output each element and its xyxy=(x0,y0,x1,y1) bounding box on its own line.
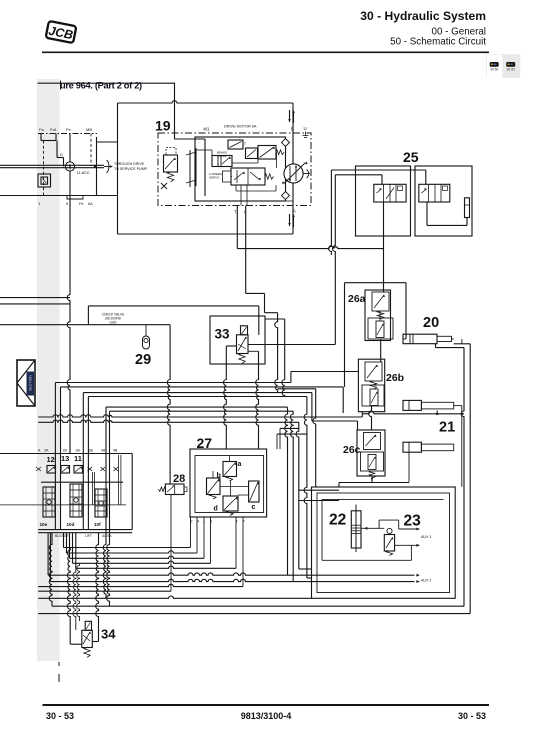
26c relief xyxy=(364,433,381,450)
right brake valve out loop xyxy=(426,202,428,225)
check valve diamond top xyxy=(282,139,290,147)
svg-text:34: 34 xyxy=(101,627,116,642)
svg-text:11.8CC: 11.8CC xyxy=(77,170,90,175)
svg-text:T: T xyxy=(244,142,246,146)
svg-text:21: 21 xyxy=(439,420,455,436)
left bottom rail xyxy=(0,195,118,197)
swash plate symbol xyxy=(189,150,191,187)
26b valve xyxy=(370,389,378,406)
26c rail left drop xyxy=(338,483,340,487)
inner wires of motor block xyxy=(204,139,206,196)
svg-text:Fa1: Fa1 xyxy=(50,127,58,132)
svg-text:Fe: Fe xyxy=(79,202,83,206)
solenoid valve 2-speed xyxy=(246,148,258,159)
valve 33 left wire xyxy=(226,345,236,347)
box 27 enclosure xyxy=(190,449,267,517)
svg-text:b: b xyxy=(217,473,221,480)
box 25 left enclosure xyxy=(356,166,411,236)
main supply loop top xyxy=(118,101,294,103)
svg-text:33: 33 xyxy=(215,327,231,342)
check X right xyxy=(114,467,119,471)
svg-text:SERVO: SERVO xyxy=(209,175,220,179)
motor case drain xyxy=(307,170,309,179)
svg-text:B: B xyxy=(291,127,294,132)
34 mid drop 1 xyxy=(73,568,76,630)
valve 34 body xyxy=(82,630,93,647)
svg-text:30 - Hydraulic System: 30 - Hydraulic System xyxy=(360,9,486,23)
rail B stub xyxy=(329,170,332,255)
svg-text:ure 964. (Part 2 of 2): ure 964. (Part 2 of 2) xyxy=(60,80,142,90)
valve 27a xyxy=(223,462,237,477)
0 port zigzag down xyxy=(264,293,266,312)
bank bottom rails xyxy=(38,529,132,531)
main supply loop bottom xyxy=(118,233,294,235)
valve 27b xyxy=(207,478,221,495)
svg-text:26a: 26a xyxy=(348,293,366,305)
26a inner box xyxy=(368,318,393,339)
svg-text:A: A xyxy=(293,209,296,214)
check valve rail xyxy=(88,305,258,307)
cylinder 21 feed line xyxy=(362,412,464,414)
inner return rect right xyxy=(461,348,464,607)
sidebar tab xyxy=(17,360,35,406)
26a valve xyxy=(376,321,384,338)
svg-text:6A: 6A xyxy=(88,202,93,206)
port B flow arrows xyxy=(289,110,291,122)
valve pilot box xyxy=(223,171,232,182)
cylinder 21 body xyxy=(403,400,421,410)
svg-text:30 - 53: 30 - 53 xyxy=(458,711,486,721)
bus wire A5 xyxy=(106,406,288,408)
svg-text:Fe: Fe xyxy=(66,127,71,132)
relief drain X xyxy=(161,183,167,189)
aux1 arrow 2 xyxy=(395,544,420,546)
figure caption line xyxy=(38,82,176,84)
bank top rail xyxy=(0,453,132,455)
outer return rect bottom xyxy=(38,613,470,615)
valve 28 bottom wire xyxy=(170,495,172,592)
bus wire A6 drop xyxy=(107,411,110,606)
brake valve left xyxy=(374,184,406,202)
cylinder 21 rod xyxy=(421,402,453,409)
33 top right wire xyxy=(265,318,285,320)
spool 10f xyxy=(95,489,107,517)
rail notch xyxy=(67,196,83,200)
27 top feed 2 xyxy=(279,428,281,449)
26c inner box xyxy=(361,452,384,471)
0 port zigzag right xyxy=(246,292,265,294)
svg-text:AUX 1: AUX 1 xyxy=(421,535,431,539)
main supply loop left xyxy=(117,103,119,234)
svg-text:50 - Schematic Circuit: 50 - Schematic Circuit xyxy=(390,37,486,48)
bus wire A2 drop xyxy=(60,387,62,530)
svg-text:22: 22 xyxy=(329,512,346,529)
staircase wire 5 xyxy=(75,533,77,569)
27 top feed 1 xyxy=(276,434,278,449)
valve 27c xyxy=(249,481,259,502)
26b inner box xyxy=(362,385,384,406)
wire supply to left brake valve xyxy=(335,174,382,176)
svg-text:29: 29 xyxy=(135,352,151,368)
check valve box drop xyxy=(87,306,89,325)
bank stub verticals xyxy=(118,455,120,505)
left gauge component xyxy=(38,174,51,187)
svg-text:5: 5 xyxy=(66,202,68,206)
svg-text:20: 20 xyxy=(423,315,439,331)
cylinder 26c rod xyxy=(421,444,453,451)
accumulator 22 body xyxy=(351,511,361,548)
port A flow arrows xyxy=(289,214,291,226)
check valve diamond bottom xyxy=(282,192,290,200)
svg-text:a: a xyxy=(238,461,242,468)
wire a-branch xyxy=(96,137,98,142)
wire 29 rail down to aux valve 28 xyxy=(167,325,170,484)
main directional valve xyxy=(231,168,265,185)
svg-text:LIFT: LIFT xyxy=(85,534,92,538)
svg-text:10f: 10f xyxy=(94,522,101,527)
servo cylinder xyxy=(212,156,232,167)
accumulator 22 rod xyxy=(355,505,357,552)
shuttle box xyxy=(228,140,243,149)
aux2 rail 1 xyxy=(47,533,49,576)
hydraulic motor xyxy=(284,164,303,183)
svg-text:19: 19 xyxy=(155,118,171,134)
23 step wire xyxy=(378,520,380,528)
bank mid rail xyxy=(41,481,123,483)
junction dot xyxy=(94,165,97,168)
26a feed loop xyxy=(345,282,407,284)
svg-text:SECTION: SECTION xyxy=(29,375,33,391)
valve 23 spring xyxy=(386,551,392,556)
34 drop left xyxy=(67,548,70,645)
bank right edge xyxy=(131,454,133,530)
solenoid 13 xyxy=(61,466,70,474)
valve 33 spring xyxy=(239,354,245,364)
svg-text:AUX 2: AUX 2 xyxy=(421,579,431,583)
svg-text:2A: 2A xyxy=(44,449,49,453)
valve 28 xyxy=(165,484,184,495)
cylinder 20 head wire xyxy=(403,338,406,340)
box 2223 outer xyxy=(312,487,456,598)
26b left rail xyxy=(342,387,344,413)
bus wire A5 drop xyxy=(103,407,106,598)
bus wire A2 xyxy=(61,386,344,388)
26a enclosure xyxy=(365,290,391,341)
T port wire down xyxy=(236,206,238,249)
22 to 23 wire xyxy=(361,527,384,529)
26b enclosure xyxy=(358,359,384,412)
valve 33 pilot xyxy=(241,326,248,335)
spool 10e xyxy=(43,487,55,517)
valve 23 body xyxy=(384,535,394,552)
right rail 1 xyxy=(285,407,288,575)
svg-text:2B: 2B xyxy=(63,449,68,453)
check X mid1 xyxy=(88,467,93,471)
box 25 right enclosure xyxy=(415,166,472,236)
box 27 internal wires xyxy=(220,486,249,488)
motor inner housing xyxy=(195,137,286,201)
check X mid2 xyxy=(101,467,106,471)
through-drive double line xyxy=(0,164,104,166)
JCB logo xyxy=(46,21,77,43)
wire Fa bracket xyxy=(40,134,42,141)
brake valve right xyxy=(419,184,450,202)
26b relief xyxy=(365,362,382,381)
33 feed down xyxy=(258,306,260,335)
bus wire A3 drop xyxy=(82,393,84,530)
cylinder 20 rod xyxy=(437,336,452,341)
wire Fe long vertical xyxy=(67,134,70,454)
svg-text:30 - 53: 30 - 53 xyxy=(46,711,74,721)
0 port zigzag down 2 xyxy=(275,313,278,393)
svg-text:Fa: Fa xyxy=(39,127,44,132)
svg-text:U: U xyxy=(304,126,307,131)
26c enclosure xyxy=(357,430,385,476)
staircase wire 3 xyxy=(69,533,71,559)
bus wire A4 xyxy=(88,396,307,398)
27 c outputs xyxy=(299,489,339,491)
svg-text:26b: 26b xyxy=(386,372,404,384)
wire D jog xyxy=(56,141,58,158)
svg-text:30-50: 30-50 xyxy=(490,68,498,72)
inner return rect bottom xyxy=(52,605,464,607)
wire Fa1 dashed drop xyxy=(43,141,45,196)
box25 accumulator xyxy=(465,198,470,218)
wire from figure area down to motor xyxy=(174,83,176,139)
svg-text:10d: 10d xyxy=(67,522,75,527)
cylinder 20 bottom port wire xyxy=(435,344,437,348)
26a out down xyxy=(380,339,382,362)
bus wire A1 xyxy=(55,382,291,384)
svg-text:D: D xyxy=(60,153,63,157)
svg-text:THROUGH DRIVE: THROUGH DRIVE xyxy=(114,162,145,166)
valve 33 body xyxy=(237,335,249,354)
svg-text:AUX 1: AUX 1 xyxy=(102,534,112,538)
svg-text:d: d xyxy=(214,506,218,513)
staircase wire 2 xyxy=(66,533,68,553)
spool 10d xyxy=(70,484,82,517)
cylinder 20 rod-end wire xyxy=(461,339,463,344)
right rail 3 xyxy=(296,422,299,569)
bus wire A4 rail xyxy=(304,397,307,579)
0 port zigzag right 2 xyxy=(265,312,278,314)
P port deep wire xyxy=(38,584,243,586)
box 27 inner xyxy=(195,456,264,513)
svg-text:GAS: GAS xyxy=(110,321,118,325)
drive motor dash-dot enclosure xyxy=(158,133,311,206)
valve 27d xyxy=(223,496,238,511)
aux1 arrow 1 xyxy=(399,528,420,530)
gray strip bottom dashes xyxy=(58,662,60,666)
svg-text:c: c xyxy=(252,504,256,511)
svg-text:M1: M1 xyxy=(204,127,210,132)
svg-text:MB: MB xyxy=(86,127,92,132)
valve 33 out wire xyxy=(248,350,259,352)
tank symbol U xyxy=(305,132,307,136)
zigzag drop mid xyxy=(313,389,316,487)
solenoid 12 xyxy=(47,466,56,474)
wire supply to right brake valve xyxy=(331,169,425,171)
main supply loop right xyxy=(292,103,294,234)
gear pump 11.8CC xyxy=(65,162,74,171)
26b out down xyxy=(369,406,372,431)
bus wire A4 drop xyxy=(87,397,89,530)
svg-text:TO SERVICE PUMP: TO SERVICE PUMP xyxy=(114,167,148,171)
dash-dot rail xyxy=(38,133,97,135)
box2223 bottom extension xyxy=(38,596,311,598)
check valve feed rail xyxy=(0,324,170,326)
34 mid drop 2 xyxy=(77,563,80,621)
svg-text:3B: 3B xyxy=(89,449,94,453)
check X left xyxy=(36,467,41,471)
svg-text:25: 25 xyxy=(403,149,419,165)
26a left rail xyxy=(344,283,346,387)
bus wire B2 long xyxy=(38,420,299,422)
34 drop right xyxy=(96,533,99,642)
bus wire A3 xyxy=(83,392,312,394)
cylinder 21 rod-end wire xyxy=(461,406,463,487)
svg-text:1: 1 xyxy=(39,202,41,206)
valve 23 pilot circle xyxy=(387,528,392,533)
svg-text:10e: 10e xyxy=(40,522,48,527)
box 33 enclosure xyxy=(210,316,265,364)
pilot rail to brake valves xyxy=(237,246,383,248)
footer rule xyxy=(43,704,490,706)
svg-text:30-53: 30-53 xyxy=(507,68,515,72)
23 return loop xyxy=(410,545,412,560)
cylinder 26c body xyxy=(403,442,421,452)
check valve 29 symbol xyxy=(145,325,147,336)
26c out down arrow xyxy=(371,476,373,483)
valve 34 spring xyxy=(84,648,90,658)
svg-text:DRIVE MOTOR 9A: DRIVE MOTOR 9A xyxy=(224,125,257,129)
svg-text:13: 13 xyxy=(61,454,69,463)
svg-text:4B: 4B xyxy=(113,449,118,453)
26c valve xyxy=(368,455,376,470)
page margin gray strip xyxy=(37,79,60,661)
solenoid 11 xyxy=(74,466,83,474)
svg-text:23: 23 xyxy=(404,513,422,530)
28 return rail xyxy=(38,590,171,592)
cylinder 21 bottom wire xyxy=(436,410,438,413)
svg-text:26c: 26c xyxy=(343,444,361,456)
cylinder 20 body xyxy=(403,334,437,344)
outer return rect right xyxy=(462,343,470,345)
valve 34 pilot xyxy=(85,621,91,630)
26c bottom rail xyxy=(339,482,409,484)
inner return rect left xyxy=(49,533,52,606)
staircase wire 4 xyxy=(72,533,74,564)
header rule xyxy=(42,51,489,53)
bus wire B1 long xyxy=(38,415,362,417)
26a relief xyxy=(372,292,389,311)
through-drive port arc xyxy=(107,160,109,173)
nav buttons xyxy=(486,54,520,78)
rail U down to valve 33 xyxy=(333,175,336,345)
bus wire A1 drop xyxy=(54,383,56,530)
bank work rail xyxy=(0,504,126,506)
svg-text:28: 28 xyxy=(173,473,185,485)
left return lines xyxy=(0,297,70,299)
svg-text:12: 12 xyxy=(47,455,55,464)
0 port wire down xyxy=(245,206,247,294)
aux2 rail 2 xyxy=(49,533,51,582)
svg-text:3A: 3A xyxy=(76,449,81,453)
relief valve xyxy=(164,155,178,172)
bus wire A6 xyxy=(110,410,294,412)
staircase wire 1 xyxy=(63,533,65,548)
svg-text:4A: 4A xyxy=(101,449,106,453)
relief pilot box xyxy=(166,148,176,156)
svg-text:9813/3100-4: 9813/3100-4 xyxy=(241,711,292,721)
cylinder 26c bottom wire xyxy=(408,452,410,482)
box 2223 inner xyxy=(317,493,450,593)
svg-text:11: 11 xyxy=(74,454,82,463)
svg-text:T: T xyxy=(234,210,237,215)
wire MB dashed drop xyxy=(90,134,92,167)
left brake valve out down xyxy=(383,202,385,292)
right rail 2 xyxy=(290,411,293,581)
